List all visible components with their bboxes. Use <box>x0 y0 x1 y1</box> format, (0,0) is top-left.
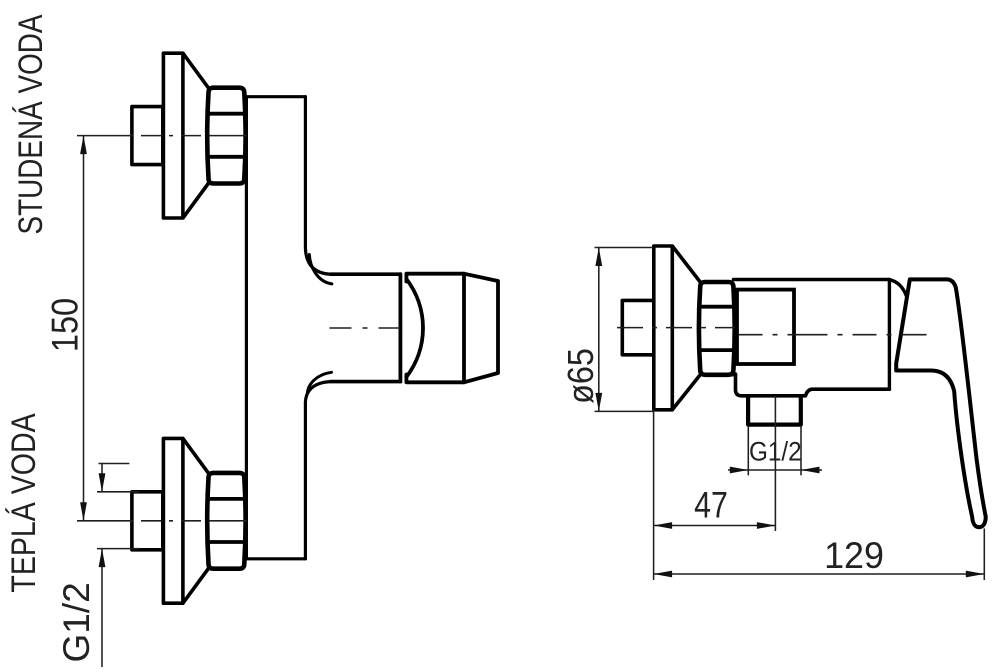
extension flange left (47/129) <box>653 410 655 580</box>
body outline left view <box>246 97 305 559</box>
G1/2 right extension left <box>747 426 749 476</box>
cone side <box>672 246 706 410</box>
arrow 150 bottom <box>80 502 87 521</box>
neck end vertical <box>398 274 402 381</box>
cap of cartridge <box>406 274 464 383</box>
echo curve bottom <box>307 372 331 392</box>
svg-text:ø65: ø65 <box>561 348 601 404</box>
side inlet assembly <box>622 246 734 410</box>
echo curve top <box>309 255 332 284</box>
extension handle tip (129) <box>983 529 985 581</box>
pipe stub side <box>622 300 654 354</box>
dim line 129 <box>654 573 985 575</box>
G1/2 left dim tick <box>99 463 130 465</box>
knob trapezoid <box>464 274 498 383</box>
arrow dia65 down <box>595 393 602 412</box>
G1/2 right dim line <box>728 469 822 471</box>
arrow 47 left <box>654 522 673 529</box>
arrow G1/2 left down <box>99 473 106 492</box>
hex nut side <box>699 282 735 375</box>
G1/2 left dim line lower <box>101 549 103 667</box>
body top corner arc <box>888 280 906 297</box>
G1/2 left extension bottom <box>97 548 140 550</box>
hex nut bottom edge extension to body <box>733 373 735 377</box>
top inlet assembly <box>132 53 246 218</box>
arrowheads <box>80 136 984 578</box>
svg-text:150: 150 <box>45 298 86 352</box>
hex nut bottom <box>207 473 245 569</box>
cone top <box>183 53 215 218</box>
hex nut top <box>207 88 245 184</box>
extension outlet center <box>774 396 776 531</box>
dim line 47 <box>654 525 776 527</box>
G1/2 left extension top <box>97 491 140 493</box>
centerline side view right segment <box>739 334 927 336</box>
svg-text:STUDENÁ VODA: STUDENÁ VODA <box>11 14 49 234</box>
cone bottom <box>183 438 215 603</box>
body right edge upper + curve to neck top <box>305 97 330 275</box>
centerline side view left segment <box>617 327 735 329</box>
dim line 150 <box>83 136 85 521</box>
neck top edge <box>331 272 401 276</box>
svg-text:G1/2: G1/2 <box>749 437 802 466</box>
flange plate side <box>654 246 673 410</box>
cartridge rectangle inside body <box>737 290 794 364</box>
dim line dia65 <box>598 248 600 412</box>
arrow 150 top <box>80 136 87 155</box>
arrow G1/2 left up <box>99 549 106 568</box>
neck bottom edge <box>331 380 401 384</box>
svg-text:129: 129 <box>824 535 884 577</box>
flange plate top <box>163 53 183 218</box>
centerline bottom inlet <box>77 520 247 522</box>
pipe stub top <box>132 107 163 165</box>
dia65 extension bottom <box>595 410 654 412</box>
arrow dia65 up <box>595 248 602 267</box>
cap lens arc <box>406 279 423 377</box>
G1/2 right extension right <box>800 426 802 476</box>
bottom inlet assembly <box>132 438 246 603</box>
flange plate bottom <box>163 438 183 603</box>
pipe stub bottom <box>132 492 163 550</box>
body right end vertical <box>888 280 891 389</box>
body side view <box>733 278 888 281</box>
arrow 129 left <box>654 571 673 578</box>
svg-text:TEPLÁ VODA: TEPLÁ VODA <box>5 413 43 592</box>
body right edge lower + curve from neck bottom <box>305 382 330 559</box>
arrow 129 right <box>966 571 985 578</box>
outlet stub (side) <box>748 396 801 425</box>
svg-text:G1/2: G1/2 <box>56 582 97 662</box>
dia65 extension top <box>595 247 654 249</box>
svg-text:47: 47 <box>694 485 728 527</box>
arrow G1/2 right pointing right <box>730 467 749 474</box>
centerline cartridge left view <box>330 327 401 329</box>
centerline top inlet <box>77 135 247 137</box>
arrow 47 right <box>757 522 776 529</box>
G1/2 left dim line upper <box>101 464 103 492</box>
handle lever (drawn over body end) <box>896 279 986 527</box>
arrow G1/2 right pointing left <box>801 467 820 474</box>
body bottom right <box>736 374 890 396</box>
